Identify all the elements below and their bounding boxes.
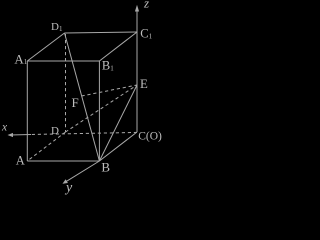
svg-text:B: B: [101, 159, 110, 174]
z-axis with edge CC1: [136, 10, 138, 132]
x-axis solid part: [10, 134, 31, 137]
svg-text:B1: B1: [102, 59, 114, 73]
svg-text:D1: D1: [51, 21, 63, 33]
svg-text:E: E: [140, 77, 148, 91]
edge D1C1: [65, 32, 138, 33]
segment BE: [99, 85, 137, 161]
x-axis dashed part through hidden edge DC: [31, 132, 137, 134]
diagonal D1B through F: [65, 33, 100, 161]
z-axis arrowhead: [135, 5, 139, 12]
x-axis arrowhead: [8, 133, 14, 137]
edge AB: [27, 160, 99, 162]
hidden edge DA dashed: [27, 132, 65, 161]
edge BB1: [98, 61, 100, 161]
edge A1B1: [27, 60, 99, 62]
y-axis arrowhead: [63, 179, 68, 184]
y-axis: [66, 161, 100, 182]
svg-text:A1: A1: [14, 51, 27, 66]
svg-text:C(O): C(O): [138, 131, 162, 143]
svg-text:C1: C1: [140, 27, 152, 41]
edge B1C1: [99, 32, 137, 61]
edge AA1: [26, 61, 28, 161]
segment FE dashed: [82, 85, 138, 96]
edge BC: [99, 132, 137, 161]
svg-text:A: A: [16, 153, 25, 167]
svg-text:z: z: [143, 0, 149, 11]
svg-text:y: y: [64, 181, 73, 196]
svg-text:x: x: [1, 122, 8, 134]
svg-text:F: F: [72, 95, 79, 110]
edge A1D1: [27, 33, 64, 61]
segment DE dashed: [66, 85, 138, 132]
svg-text:D: D: [51, 125, 59, 137]
hidden edge D1D dashed: [65, 34, 67, 132]
